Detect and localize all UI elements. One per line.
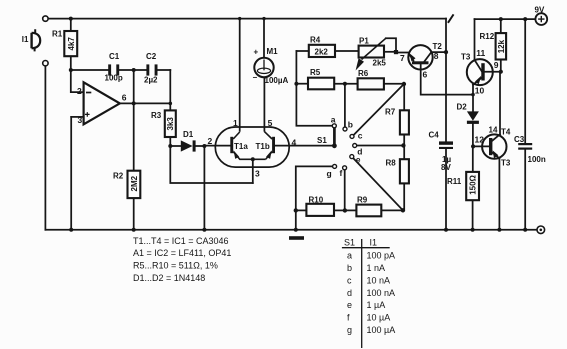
svg-text:9V: 9V [535,6,545,15]
svg-text:e: e [356,155,361,165]
svg-text:S1: S1 [344,237,355,247]
svg-text:R9: R9 [357,196,368,205]
svg-text:10 nA: 10 nA [367,275,391,285]
svg-text:2µ2: 2µ2 [144,76,158,85]
svg-text:2: 2 [77,86,82,96]
svg-text:2: 2 [208,136,213,146]
svg-text:c: c [347,275,352,285]
svg-text:C2: C2 [146,52,157,61]
svg-text:100p: 100p [105,74,123,83]
svg-text:D2: D2 [457,102,468,111]
svg-text:T2: T2 [433,42,443,51]
svg-text:100 nA: 100 nA [367,288,396,298]
svg-text:C1: C1 [109,52,120,61]
svg-text:4: 4 [292,138,297,148]
svg-text:7: 7 [400,53,405,63]
svg-text:2M2: 2M2 [130,175,139,191]
svg-text:100 µA: 100 µA [367,325,396,335]
svg-text:2k2: 2k2 [315,47,329,56]
svg-text:R3: R3 [151,111,162,120]
svg-text:12: 12 [475,134,485,144]
svg-text:C4: C4 [429,131,440,140]
svg-text:I1: I1 [370,237,378,247]
svg-text:C3: C3 [514,135,525,144]
svg-text:c: c [358,131,363,141]
svg-text:R5: R5 [310,68,321,77]
svg-text:5: 5 [268,118,273,128]
svg-text:g: g [347,325,352,335]
svg-text:6: 6 [423,70,428,80]
svg-text:b: b [348,119,353,129]
svg-text:3k3: 3k3 [166,117,175,131]
svg-text:M1: M1 [267,47,279,56]
svg-text:a: a [331,115,336,125]
svg-text:P1: P1 [359,36,369,45]
svg-text:100µA: 100µA [265,76,289,85]
svg-text:−: − [253,73,258,82]
svg-text:9: 9 [494,60,499,70]
svg-text:D1: D1 [183,130,194,139]
svg-text:3: 3 [78,115,83,125]
svg-text:1 µA: 1 µA [367,300,386,310]
svg-text:A1 = IC2 = LF411, OP41: A1 = IC2 = LF411, OP41 [133,248,231,258]
svg-text:T4: T4 [501,128,511,137]
svg-text:a: a [347,251,352,261]
svg-text:R5...R10 = 511Ω, 1%: R5...R10 = 511Ω, 1% [133,261,218,271]
svg-text:D1...D2 = 1N4148: D1...D2 = 1N4148 [133,273,205,283]
svg-text:T1...T4 = IC1 = CA3046: T1...T4 = IC1 = CA3046 [133,236,229,246]
svg-text:8: 8 [434,51,439,61]
svg-text:T1a: T1a [234,142,248,151]
svg-text:1 nA: 1 nA [367,263,386,273]
svg-text:T3: T3 [501,158,511,167]
svg-text:I1: I1 [22,35,29,44]
svg-text:100n: 100n [528,155,546,164]
svg-text:g: g [327,169,332,179]
svg-text:R8: R8 [386,158,397,167]
svg-text:4k7: 4k7 [67,37,76,51]
svg-text:R1: R1 [52,30,63,39]
svg-text:3: 3 [255,169,260,179]
svg-text:T1b: T1b [256,142,270,151]
svg-text:d: d [347,288,352,298]
svg-text:1: 1 [233,118,238,128]
svg-text:R2: R2 [113,172,124,181]
svg-text:R6: R6 [358,69,369,78]
svg-text:2k5: 2k5 [373,59,387,68]
svg-text:+: + [254,48,259,57]
svg-text:b: b [347,263,352,273]
svg-text:R10: R10 [309,195,324,204]
svg-text:R11: R11 [447,177,462,186]
svg-text:14: 14 [489,125,498,134]
svg-text:R12: R12 [480,32,495,41]
svg-text:10 µA: 10 µA [367,313,391,323]
svg-text:150Ω: 150Ω [469,174,478,194]
svg-text:T3: T3 [461,53,471,62]
svg-text:R7: R7 [385,108,396,117]
svg-text:12k: 12k [497,39,506,53]
svg-text:R4: R4 [310,35,321,44]
svg-text:8V: 8V [441,163,451,172]
svg-text:6: 6 [122,93,127,103]
svg-text:f: f [340,168,343,178]
svg-text:S1: S1 [317,136,327,145]
svg-text:100 pA: 100 pA [367,251,396,261]
svg-text:e: e [347,300,352,310]
svg-text:11: 11 [476,48,485,58]
svg-text:10: 10 [475,85,485,95]
